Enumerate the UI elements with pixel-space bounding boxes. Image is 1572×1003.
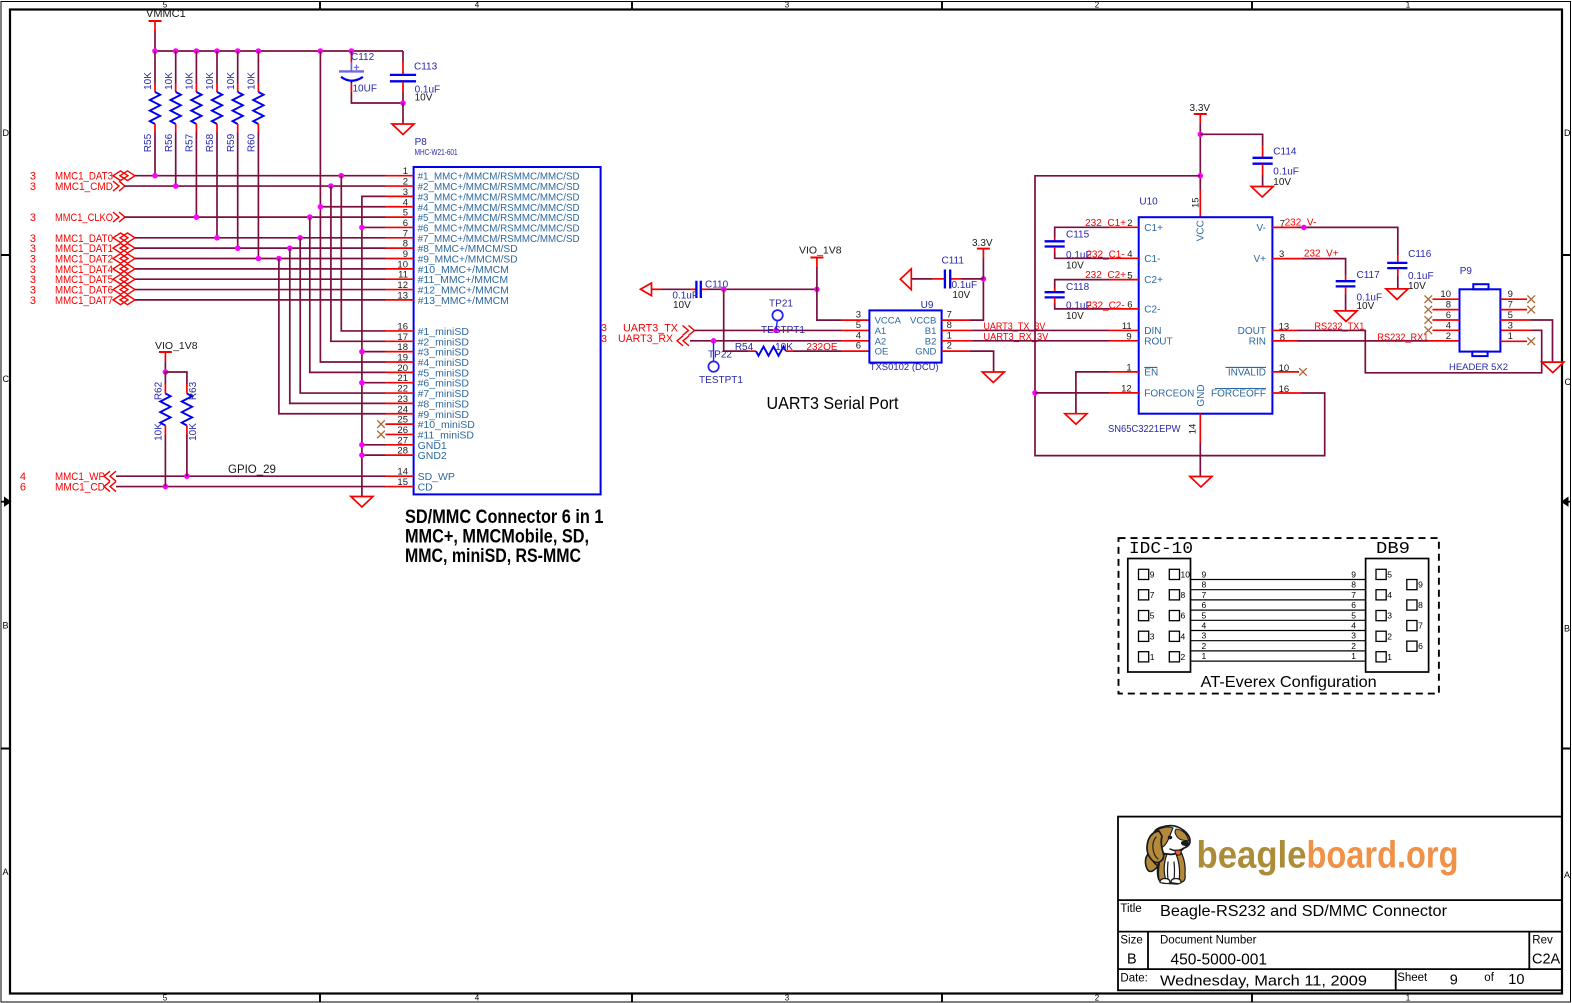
svg-text:TP21: TP21 [769,299,793,310]
svg-text:5: 5 [163,994,168,1003]
svg-text:MMC1_DAT7: MMC1_DAT7 [55,295,113,307]
wire P9 pin5 to ground [1500,320,1563,373]
svg-text:C116: C116 [1408,249,1432,260]
P9 right stubs with X [1500,295,1535,345]
svg-text:INVALID: INVALID [1228,367,1266,378]
svg-text:4: 4 [1351,621,1356,631]
svg-text:Sheet: Sheet [1397,972,1428,984]
node MMC1_WP [20,471,116,483]
svg-text:232OE: 232OE [806,342,837,353]
svg-text:6: 6 [1351,600,1356,610]
svg-text:RS232_TX1: RS232_TX1 [1314,322,1364,333]
wire 3.3V rail to FORCEON/FORCEOFF [1032,176,1325,456]
svg-text:TESTPT1: TESTPT1 [761,325,805,336]
svg-text:232_C2+: 232_C2+ [1085,270,1126,281]
wire UART3_TX to U9 A1 [695,328,870,334]
svg-text:B: B [3,621,9,631]
svg-text:C1+: C1+ [1144,223,1163,234]
svg-text:6: 6 [403,218,408,229]
svg-text:MMC+, MMCMobile, SD,: MMC+, MMCMobile, SD, [405,527,589,548]
wire MMC1_DAT0 [135,235,386,241]
svg-text:10: 10 [1508,972,1524,988]
resistor R60 10K [247,51,264,259]
svg-text:C: C [1565,377,1572,387]
svg-text:10V: 10V [415,93,433,104]
wire MMC1_DAT4 [135,268,386,270]
IDC-10 connector box [1128,559,1191,673]
svg-text:Wednesday, March 11, 2009: Wednesday, March 11, 2009 [1160,973,1367,990]
capacitor C115 0.1uF [1045,227,1139,271]
ground under C113 [392,103,414,135]
power 3.3V (U10) [1190,103,1211,217]
svg-text:2: 2 [1095,994,1100,1003]
node MMC1_CLKO [30,212,125,224]
testpoint TP22 [699,341,743,386]
svg-text:Document Number: Document Number [1160,935,1257,947]
svg-text:ROUT: ROUT [1144,336,1172,347]
svg-text:6: 6 [856,341,861,352]
svg-text:3.3V: 3.3V [972,238,993,249]
svg-text:MMC1_CD: MMC1_CD [55,482,105,494]
wire UART3_TX_3V B1 to DIN [942,321,1139,332]
svg-text:27: 27 [397,435,408,446]
svg-text:2: 2 [1351,641,1356,651]
wire MMC1_WP / GPIO_29 [116,464,386,479]
svg-text:B: B [1127,952,1137,968]
svg-text:FORCEON: FORCEON [1144,388,1194,399]
node bus junctions [152,48,354,54]
wire RS232_TX1 DOUT to P9 pin3 [1272,322,1541,373]
svg-text:C2A: C2A [1532,952,1561,968]
capacitor C113 0.1uF [390,51,440,104]
svg-text:5: 5 [1202,610,1207,620]
svg-text:P9: P9 [1460,266,1473,277]
wire EN to ground [1065,372,1139,424]
wire MMC1_DAT7 [135,299,386,301]
svg-text:U10: U10 [1139,197,1158,208]
svg-text:GND2: GND2 [418,450,447,462]
svg-text:P8: P8 [415,137,428,148]
svg-text:EN: EN [1144,367,1158,378]
svg-text:9: 9 [1202,570,1207,580]
ground under P8 [351,497,373,508]
wire MMC1_DAT6 [135,289,386,291]
ground arrow left of C110 [641,283,662,296]
svg-text:8: 8 [1202,580,1207,590]
svg-text:8: 8 [403,239,408,250]
DB9 connector box [1366,559,1429,673]
svg-text:3: 3 [1387,611,1392,621]
svg-text:10K: 10K [188,423,199,441]
svg-text:C2-: C2- [1144,304,1160,315]
svg-text:4: 4 [1202,621,1207,631]
svg-text:C112: C112 [351,52,375,63]
svg-text:C115: C115 [1066,229,1090,240]
svg-text:UART3 Serial Port: UART3 Serial Port [767,393,899,413]
svg-text:C113: C113 [414,62,438,73]
capacitor C116 0.1uF [1387,249,1433,292]
wire VMMC1 to pin4 and pin19 [318,51,386,362]
svg-text:2: 2 [403,177,408,188]
svg-text:R59: R59 [226,133,237,152]
svg-text:11: 11 [398,270,408,281]
svg-text:8: 8 [1181,590,1186,600]
right ticks [1562,255,1571,749]
node MMC1_DAT7 [30,295,135,307]
caption SD/MMC Connector [405,507,604,567]
svg-text:C118: C118 [1066,282,1090,293]
resistor R63 10K [165,372,199,476]
svg-text:4: 4 [475,994,480,1003]
left ticks [1,255,10,749]
svg-text:AT-Everex Configuration: AT-Everex Configuration [1201,674,1377,691]
wire CLKO to pin20 [310,217,386,372]
svg-text:4: 4 [403,197,408,208]
svg-text:9: 9 [1351,570,1356,580]
resistor R58 10K [205,51,222,238]
svg-text:10: 10 [397,259,408,270]
pin14 GND stub [1188,414,1201,477]
resistor R59 10K [226,51,243,248]
wire GND net pin3/6/18/21/27/28 [359,196,385,496]
wire UART3_RX_3V B2 to ROUT [942,332,1139,343]
resistor R55 10K [143,51,160,176]
wire VMMC1 bus [155,50,403,52]
TITLEBLOCK [1118,817,1562,991]
capacitor C111 0.1uF [911,256,983,302]
svg-text:3: 3 [856,310,861,321]
svg-text:8: 8 [1351,580,1356,590]
IDC-10 pin squares [1139,569,1180,662]
resistor R56 10K [164,51,181,186]
wire MMC1_CMD [125,183,386,189]
svg-text:5: 5 [1387,569,1392,579]
title block outline [1118,817,1562,991]
right sheet arrow [1561,497,1571,507]
svg-text:10K: 10K [205,72,216,90]
svg-text:6: 6 [1418,641,1423,651]
ground under C117 [1335,311,1357,322]
wire RS232_RX1 RIN to P9 pin2 [1272,332,1459,343]
wire C110 to VIO and OE [708,287,820,352]
grid letters right [1564,128,1572,880]
ground under C116 [1386,289,1408,300]
svg-text:1: 1 [1406,994,1411,1003]
svg-text:R60: R60 [247,133,258,152]
svg-text:10UF: 10UF [353,84,377,95]
svg-text:6: 6 [1202,600,1207,610]
svg-text:9: 9 [1418,580,1423,590]
svg-text:Date:: Date: [1120,973,1148,985]
svg-text:3: 3 [1202,631,1207,641]
svg-text:450-5000-001: 450-5000-001 [1171,952,1268,969]
svg-text:4: 4 [1181,631,1186,641]
node MMC1_DAT1 [30,243,135,255]
overbars EN INVALID FORCEOFF [1144,367,1266,388]
testpoint TP21 [761,299,805,337]
svg-text:MMC, miniSD, RS-MMC: MMC, miniSD, RS-MMC [405,546,581,567]
svg-text:9: 9 [1126,332,1131,343]
svg-text:R56: R56 [164,133,175,152]
svg-text:10K: 10K [164,72,175,90]
node MMC1_DAT0 [30,233,135,245]
svg-text:Size: Size [1120,935,1142,947]
svg-text:15: 15 [397,477,408,488]
svg-text:1: 1 [1387,652,1392,662]
wire V+ to C117 [1272,249,1345,275]
svg-text:3: 3 [30,212,36,224]
svg-text:5: 5 [403,208,408,219]
wire MMC1_DAT3 [135,173,386,179]
svg-text:Title: Title [1120,903,1141,915]
ground arrow left of C111 [900,269,911,290]
resistor R62 10K [154,372,171,487]
dashed box AT-Everex [1119,538,1439,694]
svg-text:3: 3 [1508,320,1513,331]
svg-text:V+: V+ [1253,254,1266,265]
svg-text:28: 28 [397,446,408,457]
svg-text:HEADER 5X2: HEADER 5X2 [1449,362,1508,373]
svg-text:beagle: beagle [1197,835,1307,877]
svg-text:DIN: DIN [1144,326,1161,337]
svg-text:10V: 10V [673,300,691,311]
svg-text:9: 9 [1450,973,1458,989]
svg-text:2: 2 [1446,331,1451,342]
svg-text:10V: 10V [1357,301,1375,312]
svg-text:RS232_RX1: RS232_RX1 [1377,332,1428,343]
svg-text:of: of [1484,972,1494,984]
svg-text:IDC-10: IDC-10 [1129,540,1193,559]
svg-text:8: 8 [1418,600,1423,610]
wire V- to C116 [1272,217,1397,255]
svg-text:22: 22 [397,384,408,395]
capacitor C112 10UF [339,51,403,103]
P9 left stubs with X [1425,295,1460,334]
svg-text:5: 5 [1150,611,1155,621]
svg-text:TESTPT1: TESTPT1 [699,375,743,386]
svg-text:V-: V- [1257,223,1266,234]
node MMC1_DAT4 [30,264,135,276]
wire MMC1_DAT1 [135,245,386,251]
svg-text:VMMC1: VMMC1 [146,8,186,20]
svg-text:4: 4 [475,1,480,10]
svg-text:24: 24 [397,404,408,415]
svg-text:UART3_TX_3V: UART3_TX_3V [983,321,1045,332]
svg-text:16: 16 [397,321,408,332]
svg-text:232_V+: 232_V+ [1304,249,1339,260]
svg-text:FORCEOFF: FORCEOFF [1211,389,1266,400]
svg-text:A: A [1564,870,1570,880]
logo beagle dog [1145,826,1190,884]
wire MMC1_DAT2 [135,256,386,262]
wire UART3_RX to U9 A2 [690,338,869,344]
svg-text:7: 7 [1150,590,1155,600]
svg-text:13: 13 [397,290,408,301]
svg-text:UART3_RX_3V: UART3_RX_3V [983,332,1048,343]
svg-text:C114: C114 [1273,146,1297,157]
wire DAT3 to pin16 [341,176,385,331]
grid letters left [3,128,10,877]
node UART3_TX off-page [601,322,694,335]
svg-text:1: 1 [1150,652,1155,662]
no-connect X pin25 pin26 [377,420,385,438]
svg-text:VCC: VCC [1195,220,1206,241]
svg-text:Beagle-RS232 and SD/MMC Connec: Beagle-RS232 and SD/MMC Connector [1160,903,1448,920]
svg-text:TXS0102 (DCU): TXS0102 (DCU) [870,362,939,373]
node MMC1_CMD [30,181,125,193]
svg-text:VIO_1V8: VIO_1V8 [155,340,198,352]
top ticks [320,2,1252,10]
FORCEOFF stub [1272,392,1301,394]
svg-text:R57: R57 [185,133,196,152]
svg-text:1: 1 [403,166,408,177]
wire MMC1_CD [116,484,386,490]
svg-text:12: 12 [397,280,408,291]
svg-text:3: 3 [1150,631,1155,641]
capacitor C110 0.1uF [661,280,729,311]
svg-text:21: 21 [397,373,408,384]
svg-text:3: 3 [30,181,36,193]
svg-text:2: 2 [1095,1,1100,10]
svg-text:2: 2 [1202,641,1207,651]
svg-text:10V: 10V [1408,281,1426,292]
svg-text:1: 1 [1406,1,1411,10]
svg-text:232_V-: 232_V- [1285,217,1317,228]
svg-text:10V: 10V [1273,177,1291,188]
IDCDB9 [1119,538,1439,694]
svg-text:MHC-W21-601: MHC-W21-601 [415,148,458,157]
wire DAT2 to pin24 [279,259,386,414]
svg-text:9: 9 [1150,569,1155,579]
svg-text:1: 1 [1202,651,1207,661]
svg-text:10K: 10K [185,72,196,90]
svg-text:10V: 10V [1066,311,1084,322]
svg-text:R54: R54 [735,342,754,353]
svg-text:6: 6 [1181,611,1186,621]
RS232 [1032,103,1564,487]
DB9 pin squares [1376,569,1417,662]
node C112-C113 junction [400,100,406,106]
FORCEON stub [1110,392,1139,394]
svg-text:C1-: C1- [1144,254,1160,265]
svg-text:A: A [3,867,9,877]
wire IDC to DB9 lines [1191,580,1366,662]
svg-text:R58: R58 [205,133,216,152]
svg-text:GPIO_29: GPIO_29 [228,464,276,476]
svg-text:17: 17 [397,332,408,343]
svg-text:3: 3 [30,295,36,307]
svg-text:U9: U9 [921,300,934,311]
svg-text:20: 20 [397,363,408,374]
svg-text:15: 15 [1191,197,1202,208]
bottom ticks [320,994,1252,1003]
wire MMC1_CLKO [125,214,386,220]
svg-text:7: 7 [1418,621,1423,631]
wire VIO to U9 VCCA [817,289,870,320]
P8 pin stubs and numbers [386,176,414,487]
grid numbers top [163,1,1411,10]
svg-text:board.org: board.org [1307,835,1459,877]
svg-text:MMC1_CLKO: MMC1_CLKO [55,212,113,224]
svg-text:DOUT: DOUT [1238,326,1266,337]
capacitor C114 0.1uF [1200,134,1299,188]
svg-text:10V: 10V [1066,261,1084,272]
grid numbers bottom [163,994,1411,1003]
svg-text:10V: 10V [952,290,970,301]
svg-text:26: 26 [397,425,408,436]
svg-text:B1: B1 [925,326,937,337]
svg-text:9: 9 [403,249,408,260]
svg-text:3: 3 [601,333,607,345]
svg-text:DB9: DB9 [1376,540,1410,559]
resistor R54 10K 232OE [735,342,870,356]
IC U9 TXS0102 [856,300,952,373]
node MMC1_DAT2 [30,254,135,266]
svg-text:#13_MMC+/MMCM: #13_MMC+/MMCM [418,295,509,307]
capacitor C118 0.1uF [1045,280,1139,322]
SDMMC [20,8,604,567]
left sheet arrow [1,497,12,507]
svg-text:Rev: Rev [1532,935,1553,947]
power VMMC1 [146,8,186,51]
svg-text:11: 11 [1122,321,1132,332]
power 3.3V (U9) [972,238,993,279]
node UART3_RX off-page [601,333,689,346]
svg-text:7: 7 [1351,590,1356,600]
svg-text:14: 14 [1188,424,1199,435]
svg-text:18: 18 [397,342,408,353]
svg-text:D: D [1564,128,1571,138]
svg-text:10K: 10K [247,72,258,90]
svg-text:7: 7 [403,228,408,239]
svg-text:MMC1_CMD: MMC1_CMD [55,181,113,193]
svg-text:25: 25 [397,415,408,426]
wire MMC1_DAT5 [135,278,386,280]
svg-text:SD/MMC Connector 6 in 1: SD/MMC Connector 6 in 1 [405,507,604,528]
IC U10 SN65C3221EPW [1108,197,1289,435]
svg-text:7: 7 [1202,590,1207,600]
svg-text:232_C2-: 232_C2- [1086,300,1124,311]
wire DAT0 to pin22 [300,238,385,393]
svg-text:UART3_RX: UART3_RX [618,333,674,345]
svg-text:1: 1 [1508,331,1513,342]
connector P9 HEADER 5X2 [1440,266,1512,373]
svg-text:232_C1-: 232_C1- [1086,249,1124,260]
wire DAT1 to pin23 [290,248,386,403]
svg-text:R55: R55 [143,133,154,152]
svg-text:R62: R62 [154,381,165,400]
svg-text:23: 23 [397,394,408,405]
node MMC1_CD [20,482,116,494]
UART3 [601,238,1139,413]
wire U9 GND to ground [942,351,994,372]
ground under C114 [1251,187,1273,198]
svg-text:GND: GND [915,347,936,358]
svg-text:R63: R63 [188,381,199,400]
ground under U10 [1190,477,1212,488]
logo beagleboard.org text [1197,835,1459,877]
svg-text:2: 2 [1387,631,1392,641]
svg-text:4: 4 [1387,590,1392,600]
svg-text:6: 6 [20,482,26,494]
svg-text:232_C1+: 232_C1+ [1085,218,1126,229]
svg-text:2: 2 [1181,652,1186,662]
svg-text:SN65C3221EPW: SN65C3221EPW [1108,423,1181,435]
svg-text:3: 3 [785,994,790,1003]
ground under U9 [982,372,1004,383]
capacitor C117 0.1uF [1336,270,1382,312]
svg-text:14: 14 [397,467,408,478]
